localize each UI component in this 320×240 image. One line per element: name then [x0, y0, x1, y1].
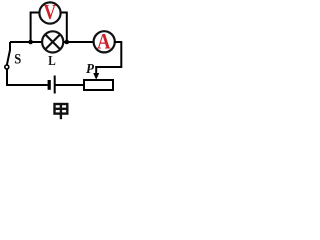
rheostat body (resistor box): [84, 80, 113, 90]
wire: rheostat left terminal to battery positive: [55, 84, 84, 86]
svg-text:L: L: [48, 53, 56, 68]
svg-text:V: V: [44, 0, 57, 24]
wire: battery negative to bottom-left corner and up to switch: [7, 68, 48, 85]
label P (wiper): [86, 62, 94, 77]
battery cell: long plate (positive): [54, 76, 56, 94]
node junction dot (lamp left / voltmeter tap): [28, 40, 33, 45]
wire: voltmeter left lead (down to node at lamp left): [31, 13, 39, 43]
voltmeter V (meter circle): [39, 0, 60, 24]
wire: voltmeter right lead (down to node at lamp right): [61, 13, 67, 43]
label 甲 (figure caption, drawn as strokes): [55, 104, 68, 119]
wire: ammeter right lead down to rheostat wiper: [96, 42, 121, 67]
lamp L (circle with cross): [42, 31, 63, 52]
wire: top-left horizontal from switch corner to lamp: [10, 41, 42, 43]
label L (lamp): [48, 53, 56, 68]
svg-text:A: A: [97, 29, 111, 54]
ammeter A (meter circle): [94, 29, 115, 54]
rheostat wiper arrow (slider P): [93, 66, 99, 80]
node junction dot (lamp right / voltmeter tap): [65, 40, 70, 45]
svg-text:S: S: [14, 52, 21, 68]
switch S: open blade: [7, 50, 10, 65]
battery cell: short thick plate (negative): [48, 80, 51, 90]
switch S: pivot circle: [5, 65, 9, 69]
wire: lamp right to ammeter left: [63, 41, 94, 43]
svg-text:P: P: [86, 62, 94, 77]
label S (switch): [14, 52, 21, 68]
wire: switch top terminal up to top-left corner: [9, 42, 11, 51]
